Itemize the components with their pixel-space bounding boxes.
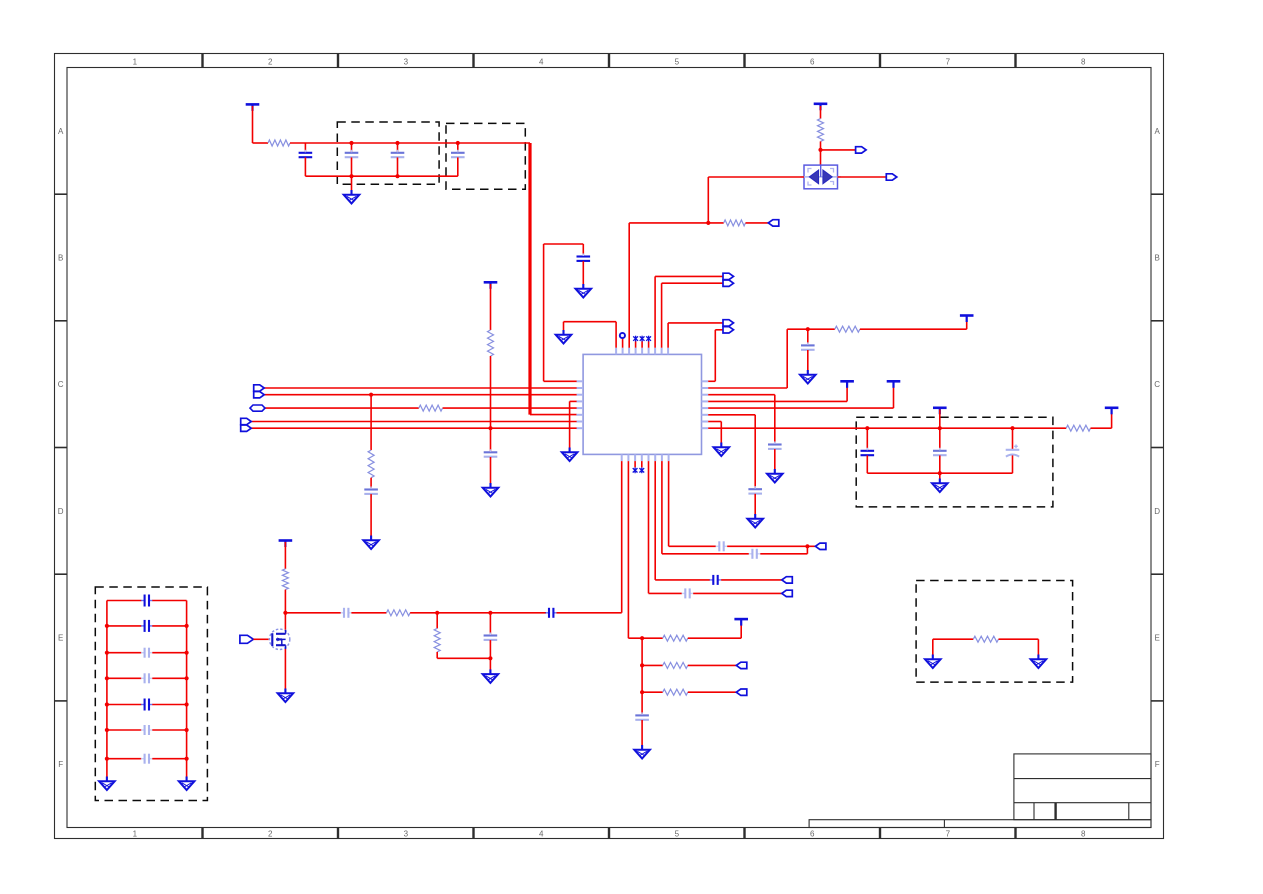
ground G2 xyxy=(556,330,572,344)
svg-text:C: C xyxy=(58,380,64,389)
wire bank right rail xyxy=(186,601,188,778)
capacitor CB2 xyxy=(141,620,153,632)
wire xyxy=(721,579,782,581)
wire xyxy=(846,383,848,401)
wire xyxy=(707,177,709,223)
wire xyxy=(688,664,737,666)
group box R-gnd xyxy=(916,581,1073,683)
port PL8 xyxy=(241,425,252,431)
junction xyxy=(349,174,353,178)
svg-text:4: 4 xyxy=(539,830,544,839)
power bar VDD capbox xyxy=(933,408,947,415)
junction xyxy=(488,656,492,660)
no-connect ring on pin xyxy=(620,333,625,338)
wire xyxy=(661,283,663,348)
wire xyxy=(668,322,723,324)
wire xyxy=(806,546,808,554)
wire xyxy=(284,649,286,690)
svg-text:5: 5 xyxy=(675,830,680,839)
capacitor C7 xyxy=(768,442,782,453)
wire xyxy=(489,613,491,636)
capacitor C6 xyxy=(801,342,815,353)
wire xyxy=(351,176,353,191)
wire xyxy=(939,473,941,479)
svg-text:F: F xyxy=(1155,760,1160,769)
wire xyxy=(530,414,577,416)
resistor R4 xyxy=(488,330,494,356)
wire xyxy=(688,691,737,693)
wire xyxy=(635,341,637,347)
no-connect cross xyxy=(633,336,638,342)
wire xyxy=(489,658,491,670)
wire xyxy=(668,461,670,546)
group box capacitor bank xyxy=(95,587,207,801)
junction xyxy=(105,651,109,655)
junction xyxy=(105,702,109,706)
wire xyxy=(715,329,723,331)
ground G17 xyxy=(1031,655,1047,669)
wire xyxy=(648,341,650,347)
ground G16 xyxy=(925,655,941,669)
no-connect cross xyxy=(633,467,638,473)
resistor R10 xyxy=(663,662,688,668)
wire xyxy=(443,407,577,409)
wire xyxy=(708,400,847,402)
junction xyxy=(105,624,109,628)
capacitor C25 xyxy=(716,541,728,551)
wire xyxy=(642,664,663,666)
ground G4 xyxy=(714,443,730,457)
power bar net5R xyxy=(887,381,901,388)
wire xyxy=(152,729,186,731)
wire xyxy=(708,421,721,423)
svg-text:6: 6 xyxy=(810,58,815,67)
ground G3 xyxy=(562,448,578,462)
wire xyxy=(820,141,822,165)
capacitor C8 xyxy=(748,486,762,497)
wire xyxy=(786,329,788,388)
wire xyxy=(634,461,636,467)
wire xyxy=(654,461,656,580)
wire xyxy=(557,612,622,614)
resistor R7 xyxy=(387,610,411,616)
wire xyxy=(351,612,386,614)
wire xyxy=(820,106,822,119)
wire xyxy=(490,457,492,484)
wire xyxy=(708,407,893,409)
wire xyxy=(654,276,656,347)
wire xyxy=(662,282,723,284)
wire xyxy=(436,613,438,629)
wire xyxy=(648,461,650,593)
ground G11 xyxy=(278,689,294,703)
wire xyxy=(714,330,716,382)
ground G15 xyxy=(179,777,195,791)
capacitor C9 xyxy=(861,448,875,459)
wire xyxy=(152,625,186,627)
wire xyxy=(662,553,749,555)
svg-text:E: E xyxy=(58,634,63,643)
capacitor C13 xyxy=(364,487,378,498)
capacitor C4 xyxy=(451,150,465,161)
group box 1 xyxy=(337,122,439,184)
wire xyxy=(1012,428,1014,449)
capacitor C26 xyxy=(749,549,761,559)
wire xyxy=(627,461,629,638)
wire xyxy=(615,322,617,348)
junction xyxy=(865,426,869,430)
op-amp U1 IC body xyxy=(583,354,701,454)
wire xyxy=(397,143,399,153)
wire xyxy=(351,157,353,176)
svg-text:D: D xyxy=(58,507,64,516)
ground G9 xyxy=(483,483,499,497)
capacitor C5 xyxy=(577,254,591,265)
wire xyxy=(708,394,775,396)
junction xyxy=(805,544,809,548)
wire xyxy=(939,410,941,429)
wire xyxy=(693,592,782,594)
wire xyxy=(628,223,630,348)
junction xyxy=(456,141,460,145)
power bar net2R xyxy=(960,316,974,323)
svg-text:5: 5 xyxy=(675,58,680,67)
wire xyxy=(570,400,577,402)
wire xyxy=(740,621,742,638)
wire bank left rail xyxy=(106,601,108,778)
wire xyxy=(489,640,491,658)
power bar net4R xyxy=(840,381,854,388)
capacitor CB5 xyxy=(141,699,153,711)
wire xyxy=(107,652,141,654)
svg-text:3: 3 xyxy=(404,58,409,67)
wire xyxy=(649,592,682,594)
svg-text:2: 2 xyxy=(268,58,273,67)
capacitor C15 xyxy=(635,712,649,723)
wire xyxy=(107,677,141,679)
wire xyxy=(264,387,576,389)
power bar VDD right xyxy=(1105,408,1119,415)
wire xyxy=(933,638,974,640)
junction xyxy=(185,728,189,732)
wire xyxy=(655,275,723,277)
wire xyxy=(544,243,584,245)
wire xyxy=(787,328,835,330)
power bar VDD pullup xyxy=(484,282,498,289)
port P6 xyxy=(723,320,734,326)
junction xyxy=(1010,426,1014,430)
svg-text:3: 3 xyxy=(404,830,409,839)
wire xyxy=(285,612,341,614)
svg-text:7: 7 xyxy=(946,830,951,839)
wire xyxy=(457,157,459,176)
wire xyxy=(152,704,186,706)
capacitor C27 xyxy=(710,575,722,585)
resistor R2 xyxy=(818,119,824,142)
resistor R9 xyxy=(663,635,688,641)
svg-text:4: 4 xyxy=(539,58,544,67)
junction xyxy=(818,148,822,152)
junction xyxy=(435,611,439,615)
svg-text:B: B xyxy=(58,254,63,263)
svg-text:1: 1 xyxy=(133,58,138,67)
svg-text:6: 6 xyxy=(810,830,815,839)
resistor R8 xyxy=(434,628,440,652)
wire xyxy=(490,428,492,452)
port PL2 xyxy=(254,385,265,391)
wire xyxy=(866,428,868,450)
wire xyxy=(669,545,716,547)
wire xyxy=(490,356,492,428)
wire xyxy=(251,427,576,429)
port Pr1 xyxy=(736,662,747,668)
off-sheet connector xyxy=(250,405,265,411)
wire xyxy=(708,414,755,416)
wire xyxy=(629,222,724,224)
no-connect cross xyxy=(640,336,645,342)
wire xyxy=(821,149,856,151)
wire xyxy=(544,380,577,382)
wire xyxy=(304,143,306,153)
wire xyxy=(720,422,722,444)
group box 2 xyxy=(446,123,525,189)
resistor R1 xyxy=(268,140,290,146)
junction xyxy=(640,636,644,640)
junction xyxy=(488,611,492,615)
capacitor C24 xyxy=(545,608,557,618)
port P1 xyxy=(856,147,867,153)
wire xyxy=(107,600,141,602)
ground G7 xyxy=(932,479,948,493)
wire xyxy=(708,427,1066,429)
resistor R14 xyxy=(835,326,860,332)
wire xyxy=(1037,639,1039,655)
wire xyxy=(370,395,372,450)
wire xyxy=(107,625,141,627)
wire xyxy=(253,142,269,144)
capacitor C2 xyxy=(345,150,359,161)
wire xyxy=(253,638,268,640)
port P4 xyxy=(723,273,734,279)
ground G12 xyxy=(483,669,499,683)
ground G5 xyxy=(767,469,783,483)
IC U1 pin stubs xyxy=(576,348,708,461)
power bar VDD top-left xyxy=(246,104,260,111)
wire xyxy=(152,677,186,679)
wire xyxy=(152,758,186,760)
wire xyxy=(774,395,776,445)
wire xyxy=(939,455,941,473)
wire xyxy=(251,421,576,423)
wire xyxy=(641,720,643,746)
junction xyxy=(938,426,942,430)
wire xyxy=(642,691,663,693)
wire xyxy=(152,652,186,654)
wire xyxy=(866,455,868,473)
svg-text:C: C xyxy=(1154,380,1160,389)
junction xyxy=(105,728,109,732)
wire xyxy=(264,394,576,396)
wire xyxy=(667,323,669,348)
junction xyxy=(488,426,492,430)
wire xyxy=(564,321,617,323)
wire xyxy=(107,704,141,706)
wire xyxy=(708,387,787,389)
wire xyxy=(932,639,934,655)
wire xyxy=(351,143,353,153)
junction xyxy=(640,663,644,667)
junction xyxy=(806,327,810,331)
power bar VDD fet xyxy=(279,541,293,548)
junction xyxy=(369,393,373,397)
capacitor C28 xyxy=(682,588,694,598)
ground G8 xyxy=(800,370,816,384)
wire xyxy=(746,222,769,224)
ground G10 xyxy=(363,536,379,550)
wire xyxy=(754,415,756,489)
wire xyxy=(754,494,756,515)
ground G13 xyxy=(634,745,650,759)
wire xyxy=(893,383,895,408)
wire xyxy=(939,428,941,450)
wire xyxy=(727,545,815,547)
junction xyxy=(283,611,287,615)
power bar VDD rdiv xyxy=(734,619,748,626)
wire xyxy=(436,652,438,658)
junction xyxy=(185,624,189,628)
resistor R11 xyxy=(663,689,688,695)
port P10 xyxy=(782,590,793,596)
wire xyxy=(622,339,624,348)
capacitor CB3 xyxy=(141,648,153,658)
capacitor C3 xyxy=(391,150,405,161)
wire xyxy=(265,407,419,409)
resistor R5 xyxy=(419,405,443,411)
svg-text:A: A xyxy=(1155,127,1161,136)
wire xyxy=(760,553,807,555)
wire xyxy=(641,341,643,347)
wire xyxy=(661,461,663,554)
resistor R15 xyxy=(368,450,374,478)
port P3 xyxy=(768,220,779,226)
wire xyxy=(708,380,715,382)
capacitor CB4 xyxy=(141,673,153,683)
ground G2b xyxy=(576,284,592,298)
capacitor C12 xyxy=(484,633,498,644)
wire xyxy=(867,472,1012,474)
wire xyxy=(305,175,457,177)
wire xyxy=(397,157,399,176)
junction xyxy=(185,676,189,680)
junction xyxy=(640,690,644,694)
no-connect cross xyxy=(639,467,644,473)
wire xyxy=(284,590,286,630)
wire xyxy=(621,461,623,613)
wire xyxy=(807,350,809,371)
wire xyxy=(563,322,565,331)
port P8 xyxy=(815,543,826,549)
wire xyxy=(252,106,254,143)
wire xyxy=(370,494,372,536)
wire xyxy=(860,328,967,330)
port PL3 xyxy=(254,392,265,398)
ground G14 xyxy=(99,777,115,791)
wire main supply vertical xyxy=(528,143,531,415)
power bar VDD tvs xyxy=(814,104,828,111)
capacitor CB1 xyxy=(141,595,153,607)
svg-text:1: 1 xyxy=(133,830,138,839)
capacitor CB6 xyxy=(141,725,153,735)
svg-text:B: B xyxy=(1155,254,1160,263)
capacitor C1 xyxy=(299,150,313,161)
capacitor C23 xyxy=(340,608,352,618)
capacitor C14 xyxy=(484,449,498,460)
junction xyxy=(349,141,353,145)
port PL7 xyxy=(241,418,252,424)
svg-text:F: F xyxy=(58,760,63,769)
svg-text:A: A xyxy=(58,127,64,136)
wire xyxy=(688,637,741,639)
junction xyxy=(185,757,189,761)
resistor R12 xyxy=(973,636,998,642)
wire xyxy=(999,638,1039,640)
ground G6 xyxy=(747,514,763,528)
wire xyxy=(774,449,776,470)
wire xyxy=(966,317,968,329)
TVS diode D1 xyxy=(801,165,842,189)
svg-text:E: E xyxy=(1155,634,1160,643)
wire xyxy=(1012,455,1014,473)
junction xyxy=(105,757,109,761)
port P9 xyxy=(782,577,793,583)
wire xyxy=(370,478,372,490)
svg-text:8: 8 xyxy=(1081,830,1086,839)
wire xyxy=(290,142,530,144)
svg-text:D: D xyxy=(1154,507,1160,516)
resistor R13 xyxy=(1066,425,1090,431)
wire xyxy=(107,729,141,731)
junction xyxy=(706,221,710,225)
wire xyxy=(655,579,710,581)
wire xyxy=(284,542,286,569)
wire xyxy=(838,176,887,178)
port P5 xyxy=(723,280,734,286)
wire xyxy=(457,143,459,153)
capacitor CB7 xyxy=(141,754,153,764)
wire xyxy=(582,244,584,256)
ground G1 xyxy=(344,190,360,204)
wire xyxy=(641,638,643,714)
port Pr2 xyxy=(736,689,747,695)
group box output caps xyxy=(856,417,1053,507)
capacitor C10 xyxy=(933,448,947,459)
junction xyxy=(105,676,109,680)
wire xyxy=(641,461,643,467)
wire xyxy=(304,157,306,176)
wire xyxy=(628,637,662,639)
resistor R6 xyxy=(282,569,288,590)
wire xyxy=(152,600,186,602)
wire xyxy=(708,176,804,178)
junction xyxy=(185,702,189,706)
transistor Q1 xyxy=(269,629,289,649)
wire xyxy=(1111,410,1113,429)
svg-text:8: 8 xyxy=(1081,58,1086,67)
port gate xyxy=(240,635,254,643)
wire xyxy=(410,612,546,614)
wire xyxy=(807,329,809,345)
wire xyxy=(543,244,545,381)
